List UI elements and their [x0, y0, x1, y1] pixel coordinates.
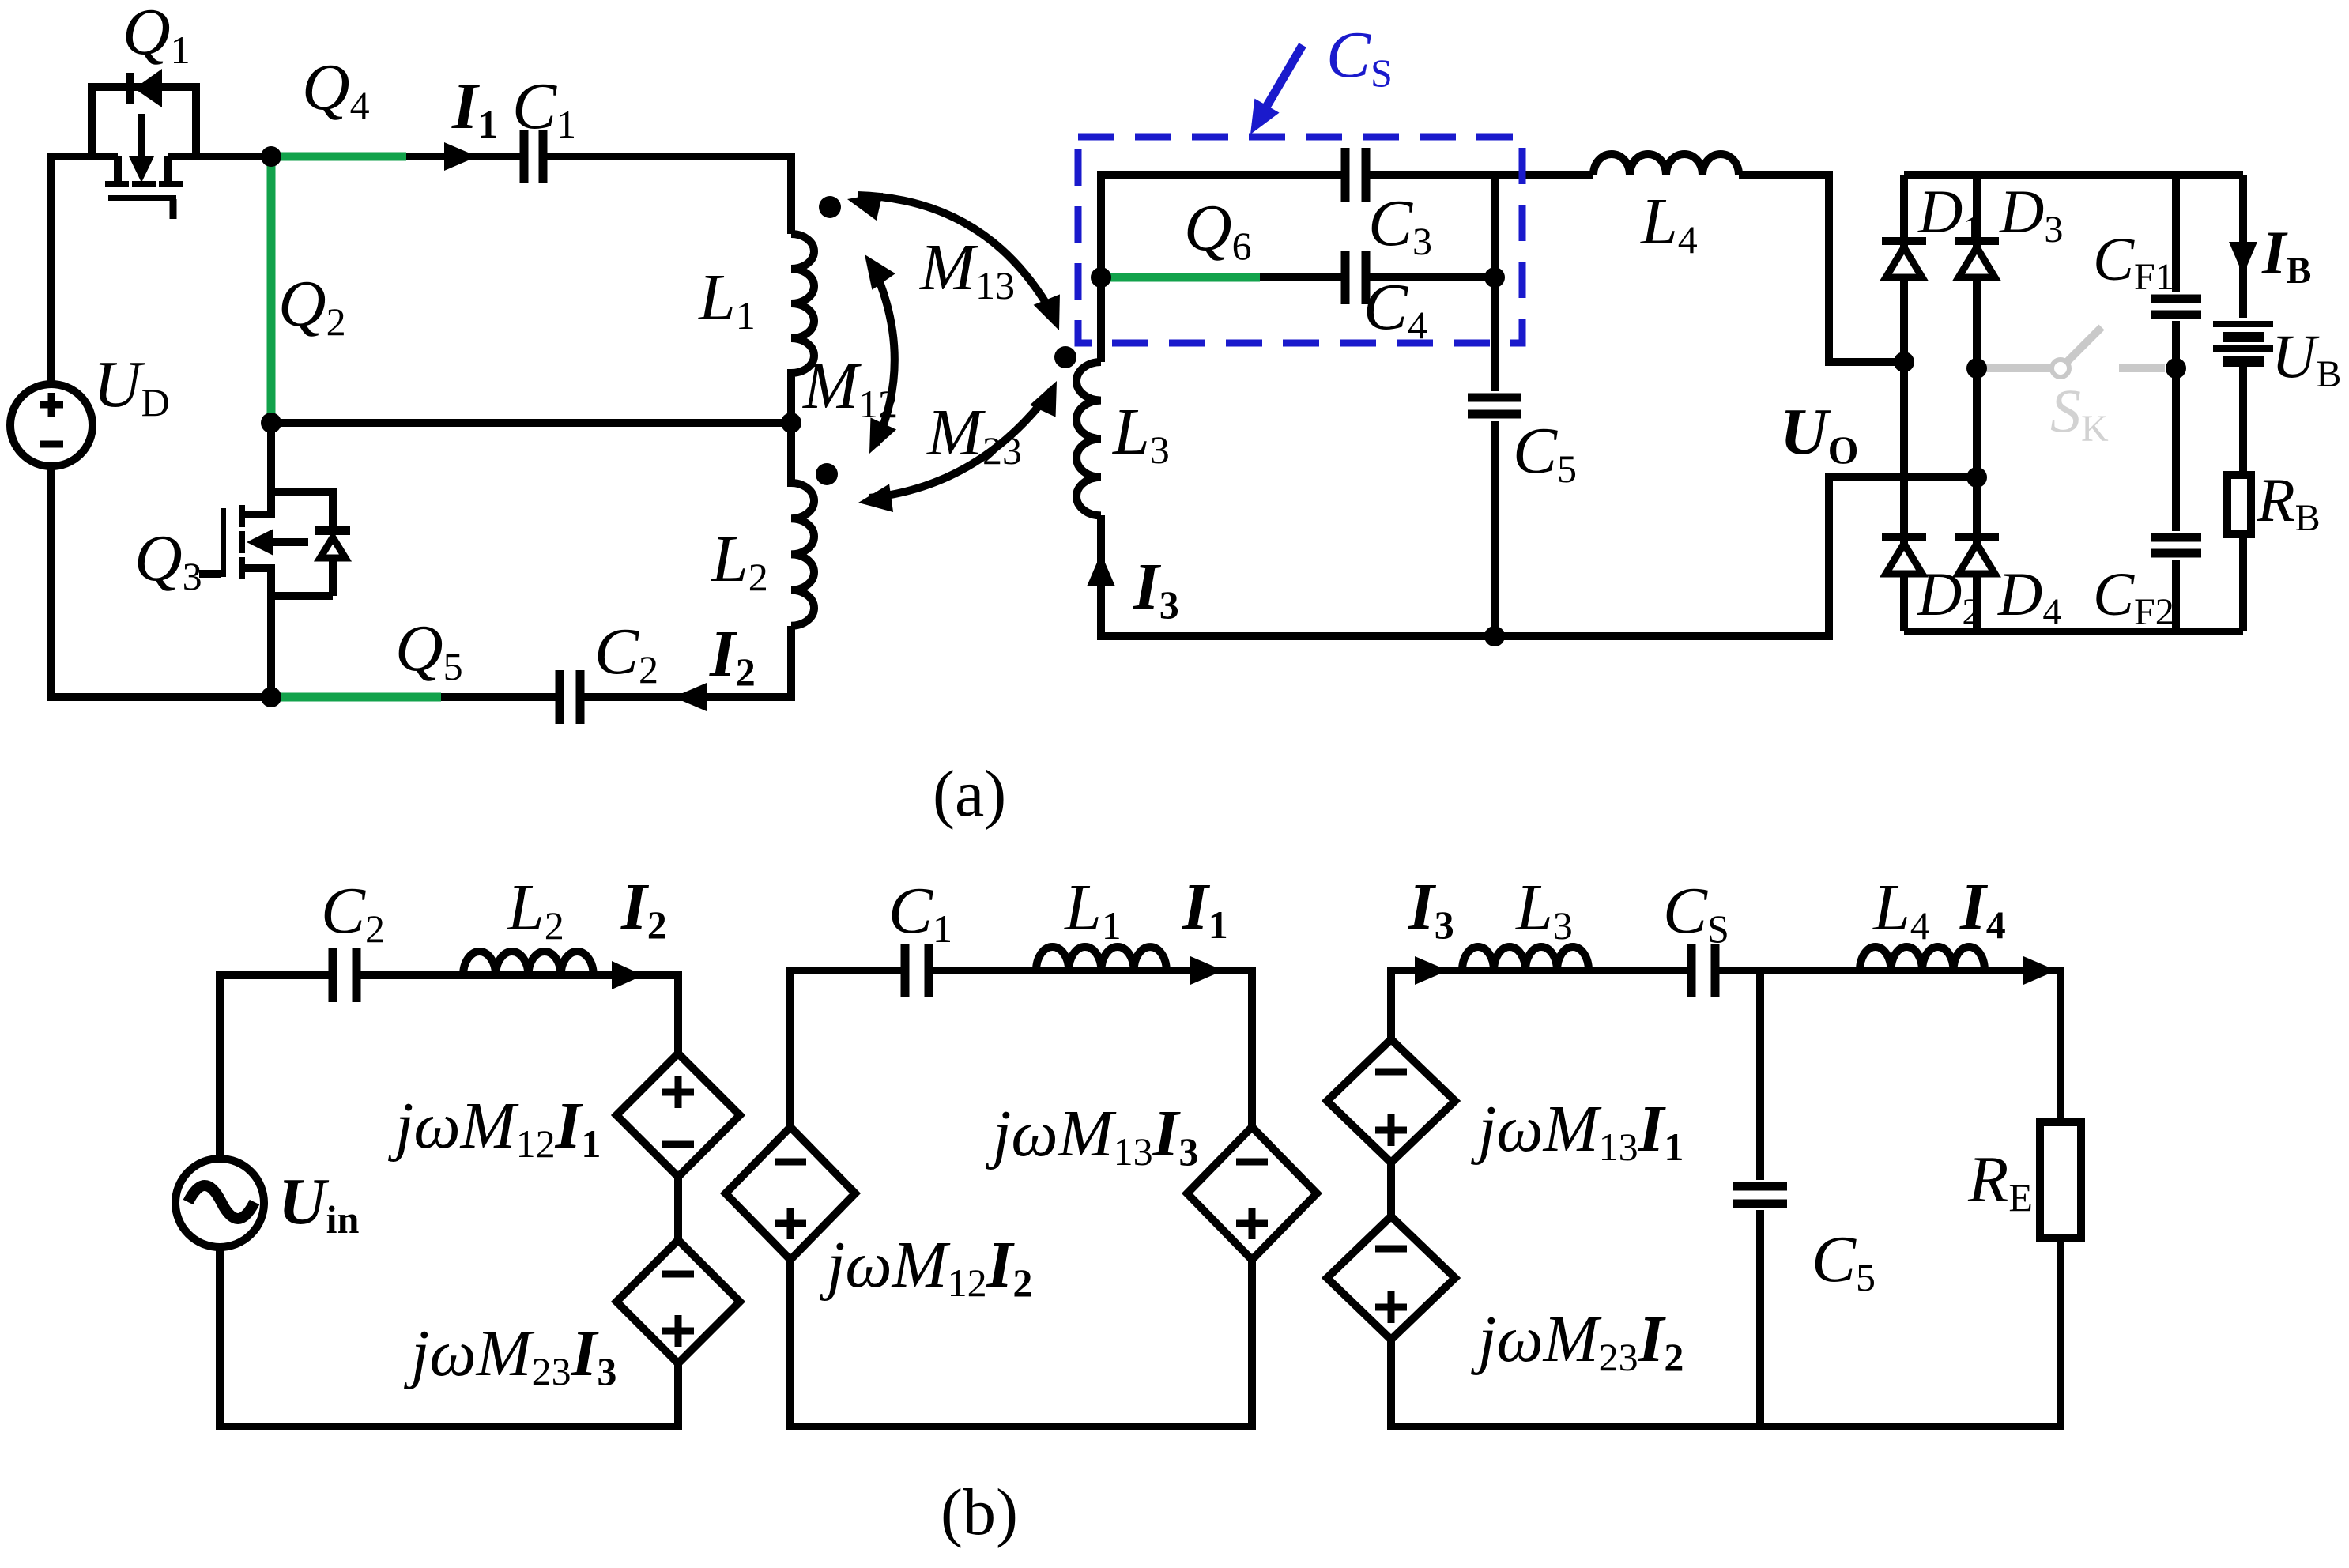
- svg-text:jωM23I3: jωM23I3: [404, 1317, 616, 1393]
- svg-text:jωM12I1: jωM12I1: [388, 1089, 601, 1166]
- svg-text:jωM13I1: jωM13I1: [1471, 1092, 1684, 1169]
- svg-text:jωM13I3: jωM13I3: [986, 1097, 1198, 1174]
- svg-text:(b): (b): [941, 1476, 1018, 1549]
- svg-text:jωM23I2: jωM23I2: [1471, 1302, 1684, 1379]
- svg-text:(a): (a): [933, 757, 1006, 831]
- svg-text:jωM12I2: jωM12I2: [820, 1228, 1032, 1305]
